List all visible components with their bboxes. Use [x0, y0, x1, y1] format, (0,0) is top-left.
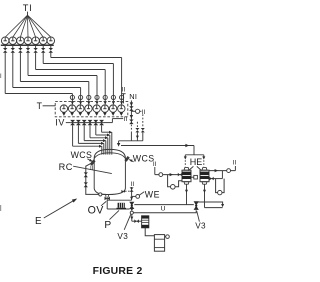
valve TV7 body: [49, 48, 53, 50]
valve aux1 body: [135, 128, 139, 130]
arrow NI down: [130, 102, 133, 106]
bottle vent circle: [166, 235, 170, 239]
valve circle RV1: [60, 105, 67, 112]
svg-text:II: II: [124, 116, 128, 123]
column HE-left bottom fitting: [184, 182, 189, 185]
wire run right level 4: [28, 75, 97, 77]
svg-text:II: II: [131, 181, 135, 188]
arrow HE-left feed: [170, 173, 173, 176]
wire bank2 outlet stub: [112, 118, 123, 120]
valve actuator circle TV5: [32, 37, 40, 45]
arrow waste down: [130, 217, 133, 220]
svg-text:RC: RC: [59, 162, 73, 172]
gauge circle WE: [136, 195, 140, 199]
node junction circle under V3a: [130, 211, 133, 214]
leader WE: [139, 192, 144, 195]
leader V3 left: [124, 214, 131, 230]
valve circle RV2: [68, 105, 75, 112]
valve NI body: [129, 106, 133, 108]
wire run right to bundle 1: [73, 145, 102, 147]
valve RV6 outlet wedge: [103, 112, 107, 116]
svg-text:HE: HE: [190, 157, 203, 167]
valve TV3 body: [18, 48, 22, 50]
wire stem TV2: [12, 45, 14, 49]
leader OV: [101, 201, 106, 205]
wire HE bridge: [185, 154, 204, 156]
column HE-right body: [200, 170, 209, 182]
wire TI fan line 7: [28, 15, 51, 37]
valve IV4 body: [88, 120, 93, 123]
wire stem TV3: [19, 45, 21, 49]
arrow bypass branch down: [221, 204, 224, 207]
valve RV4 outlet wedge: [87, 112, 91, 116]
wire drop from TV3: [19, 53, 21, 82]
valve TV6 body: [41, 48, 45, 50]
column HE-right bottom fitting: [202, 182, 207, 185]
wire TI fan line 2: [13, 15, 28, 37]
wire drop to port 4: [96, 76, 98, 105]
valve HE-left inlet: [178, 173, 180, 177]
valve RV3 outlet wedge: [78, 112, 82, 116]
port circle P5: [103, 95, 107, 99]
valve actuator circle TV3: [17, 37, 25, 45]
arrow into port 7: [120, 101, 123, 104]
valve HE-right outlet: [210, 177, 212, 181]
valve RV1 outlet wedge: [62, 112, 66, 116]
valve IV2 body: [76, 120, 81, 123]
wire run right to bundle 2: [78, 142, 103, 144]
wire drop from TV6: [42, 53, 44, 64]
valve circle RV6: [101, 105, 108, 112]
arrow HE left drop: [184, 156, 187, 159]
valve OV body: [105, 197, 108, 201]
bottle vent stub: [165, 236, 166, 238]
valve TV2 body: [11, 48, 15, 50]
valve V3a body: [129, 202, 134, 206]
wire vessel outlet: [106, 197, 108, 201]
valve left WCS line lower: [84, 182, 88, 184]
wire run right level 3: [20, 81, 88, 83]
wire HE-left recirculation loop: [168, 175, 182, 187]
wire stem TV1: [4, 45, 6, 49]
arrow HE right drop: [202, 156, 205, 159]
leader WCS right: [129, 160, 133, 162]
leader HE to right column: [197, 166, 202, 170]
arrow into port 6: [112, 101, 115, 104]
wire TI fan line 6: [28, 15, 44, 37]
valve IV1 body: [70, 120, 75, 123]
leader HE to left column: [188, 166, 193, 170]
vessel RC right wall: [124, 158, 126, 189]
svg-text:T: T: [37, 101, 43, 111]
valve circle RV7: [109, 105, 116, 112]
wire waste horizontal: [132, 220, 142, 222]
wire HE-right recirculation loop: [216, 179, 225, 193]
svg-text:E: E: [35, 216, 42, 227]
valve actuator circle TV7: [47, 37, 55, 45]
port circle P1: [70, 95, 74, 99]
valve vessel side port: [121, 190, 123, 193]
valve IV6 body: [99, 120, 104, 123]
leader RC: [73, 166, 112, 173]
gauge circle HE-left feed: [159, 173, 163, 177]
leader V3 right: [197, 211, 200, 221]
port circle P2: [79, 95, 83, 99]
wire V3b bypass top branch: [197, 202, 223, 204]
valve actuator circle TV6: [39, 37, 47, 45]
scan artifact left edge 1: [0, 74, 1, 79]
svg-text:WE: WE: [145, 189, 160, 199]
wire TI fan line 1: [5, 15, 27, 37]
valve RV7 outlet wedge: [111, 112, 115, 116]
wire drop from TV1: [4, 53, 6, 94]
svg-text:TI: TI: [23, 3, 33, 13]
wire supply header to vessel: [119, 140, 143, 142]
wire TI fan line 4: [27, 15, 30, 37]
wire drop from IV6: [101, 125, 103, 132]
arrow V3a outlet down: [130, 208, 133, 211]
svg-text:P: P: [104, 220, 111, 231]
wire HE-right riser: [221, 171, 223, 179]
wire stem TV4: [27, 45, 29, 49]
arrow into port 5: [104, 101, 107, 104]
pump circle HE-left loop: [171, 185, 176, 190]
manifold bar bank1: [1, 44, 54, 46]
valve V3b body: [194, 201, 199, 205]
wire WE riser: [131, 187, 133, 200]
wire run right level 6: [43, 63, 113, 65]
valve IV5 body: [93, 120, 98, 123]
valve waste body: [134, 219, 136, 223]
wire pump bypass left: [106, 200, 108, 209]
arrow into port 3: [87, 101, 90, 104]
wire IV row riser: [111, 119, 113, 123]
wire drop to port 2: [80, 88, 82, 105]
sample port square HE: [191, 176, 194, 178]
arrow into port 4: [95, 101, 98, 104]
valve actuator circle TV4: [24, 37, 32, 45]
wire pump bypass top: [107, 199, 132, 201]
wire dashed aux line 2: [142, 114, 144, 127]
arrow aux1 down: [136, 136, 139, 139]
wire drop to port 3: [88, 82, 90, 105]
wire waste drop: [131, 214, 133, 221]
arrow bundle 6: [109, 131, 112, 134]
wire II HE-right horizontal upper: [209, 170, 235, 172]
wire pump bypass bottom: [107, 208, 129, 210]
wire HE-right stem corner: [205, 207, 223, 209]
wire bundle drop 5: [109, 135, 111, 155]
port circle P7: [120, 95, 124, 99]
vessel RC inner flange arc: [94, 153, 125, 159]
port circle P3: [87, 95, 91, 99]
valve aux2 body: [141, 128, 145, 130]
leader WCS left: [87, 159, 92, 162]
svg-text:WCS: WCS: [71, 150, 93, 160]
wire stem TV5: [35, 45, 37, 49]
gauge circle HE-right feed: [227, 169, 231, 173]
dashed enclosure bank2: [55, 102, 128, 117]
arrow HE-right stem: [203, 190, 206, 193]
wire HE-left stem down: [186, 184, 188, 204]
leader arrow E to vessel: [44, 199, 76, 218]
wire bundle drop 6: [111, 132, 113, 154]
wire drop from IV3: [83, 125, 85, 140]
vessel RC left wall: [93, 158, 95, 189]
arrow HE-right upper: [215, 169, 218, 172]
svg-text:WCS: WCS: [133, 154, 155, 164]
valve circle RV5: [93, 105, 100, 112]
wire drop to port 6: [112, 64, 114, 105]
arrow on HE feed: [185, 144, 189, 147]
arrow bundle 4: [105, 136, 108, 139]
svg-text:V3: V3: [195, 222, 206, 231]
valve TV1 body: [3, 48, 7, 50]
waste bottle: [154, 235, 164, 252]
arrow bundle 2: [101, 142, 104, 145]
wire drop from TV4: [27, 53, 29, 76]
valve WE riser: [130, 187, 134, 189]
wire T feed: [43, 105, 56, 107]
svg-text:II: II: [90, 165, 94, 172]
svg-text:V3: V3: [117, 232, 128, 241]
arrow bundle 5: [107, 134, 110, 137]
svg-text:FIGURE 2: FIGURE 2: [93, 266, 143, 277]
wire NI supply line: [130, 100, 132, 124]
arrow into port 2: [79, 101, 82, 104]
wire run right level 5: [36, 69, 106, 71]
gauge circle mid: [136, 109, 140, 113]
valve actuator circle TV2: [9, 37, 16, 45]
wire aux1 lower: [136, 132, 138, 140]
pump circle HE-right loop: [218, 190, 222, 194]
leader P: [110, 210, 120, 219]
valve circle RV3: [77, 105, 84, 112]
wire NI lower segment: [130, 132, 132, 141]
wire HE-right horizontal lower: [209, 178, 222, 180]
wire bundle drop 1: [101, 146, 103, 154]
wire aux2 lower: [142, 132, 144, 140]
valve circle RV4: [85, 105, 92, 112]
arrow HE-left stem: [185, 190, 188, 193]
svg-text:OV: OV: [88, 205, 105, 217]
svg-text:IV: IV: [55, 118, 65, 128]
trap column body: [142, 216, 149, 228]
wire vessel to HE: [121, 145, 194, 147]
valve left WCS line upper: [84, 172, 88, 174]
wire stem TV6: [42, 45, 44, 49]
wire trap to bottle: [145, 228, 154, 236]
wire IV row right stub: [104, 122, 113, 124]
wire dashed stem HE left: [184, 160, 186, 166]
arrow into port 1: [71, 101, 74, 104]
wire drop to port 5: [104, 70, 106, 105]
wire WE gauge stub: [132, 195, 136, 197]
nozzle right: [124, 156, 129, 162]
column HE-left top fitting: [184, 168, 189, 171]
gauge circle bottom left: [99, 193, 102, 196]
wire bundle drop 2: [103, 143, 105, 154]
wire run right level 7: [51, 57, 122, 59]
valve TV5 body: [33, 48, 37, 50]
wire drop to port 7: [121, 58, 123, 105]
port circle P4: [95, 95, 99, 99]
wire II HE-left vertical: [154, 167, 156, 175]
wire drop from IV4: [89, 125, 91, 138]
svg-text:II: II: [122, 87, 126, 94]
wire drop from IV2: [77, 125, 79, 143]
wire TI fan line 3: [20, 15, 27, 37]
valve RV2 outlet wedge: [70, 112, 74, 116]
valve TV4 body: [26, 48, 30, 50]
wire II supply stub: [121, 93, 125, 95]
arrow WE riser down: [130, 197, 133, 200]
wire IV feed: [66, 122, 70, 124]
wire dashed aux line 1: [136, 122, 138, 128]
valve IV3 body: [82, 120, 87, 123]
wire II HE-left horizontal: [155, 174, 182, 176]
port circle P6: [111, 95, 115, 99]
wire left WCS line: [86, 163, 106, 195]
valve NI body 2: [129, 120, 133, 122]
vessel RC dome: [94, 149, 125, 158]
pump P body: [118, 203, 125, 208]
svg-text:II: II: [233, 160, 237, 167]
wire bundle drop 4: [107, 138, 109, 155]
wire main line lower: [133, 210, 196, 212]
nozzle left: [90, 159, 96, 165]
wire II HE-right vertical: [234, 166, 236, 171]
valve circle RV8: [118, 105, 125, 112]
column HE-right top fitting: [202, 168, 207, 171]
wire dashed stem HE right: [203, 160, 205, 166]
wire run right to bundle 5: [96, 134, 109, 136]
wire run right level 1: [5, 93, 72, 95]
wire to gauge circle: [131, 110, 135, 112]
wire drop from IV5: [95, 125, 97, 135]
valve actuator circle TV1: [1, 37, 9, 45]
wire run right to bundle 3: [84, 140, 105, 142]
wire NI dashed segment: [130, 125, 132, 132]
wire drop from TV5: [35, 53, 37, 70]
wire HE feed drop: [193, 146, 195, 155]
valve RV8 outlet wedge: [119, 112, 123, 116]
wire stem TV7: [50, 45, 52, 49]
wire bundle drop 3: [105, 141, 107, 155]
wire side port dashed: [125, 190, 132, 192]
wire IV row bus: [70, 122, 104, 124]
svg-text:NI: NI: [129, 92, 137, 101]
wire drop from IV1: [72, 125, 74, 146]
vessel RC bottom: [94, 189, 125, 195]
svg-text:U: U: [161, 206, 166, 213]
wire TI stem: [27, 12, 29, 16]
wire run right to bundle 4: [90, 137, 107, 139]
wire drop to port 1: [71, 94, 73, 105]
wire run right to bundle 6: [102, 131, 112, 133]
wire TI fan line 5: [28, 15, 36, 37]
wire drop from TV7: [50, 53, 52, 58]
wire gauge II stub: [140, 110, 142, 112]
arrow header into vessel: [117, 143, 120, 147]
wire main line upper: [134, 204, 194, 206]
wire run right level 2: [13, 87, 81, 89]
arrow bundle 3: [103, 139, 106, 142]
wire drop from TV2: [12, 53, 14, 88]
arrow NI down 2: [130, 115, 133, 119]
column HE-left body: [182, 170, 191, 182]
wire HE-right stem down: [204, 184, 206, 207]
valve RV5 outlet wedge: [95, 112, 99, 116]
arrow bundle 1: [99, 145, 102, 148]
scan artifact left edge 2: [0, 205, 1, 211]
